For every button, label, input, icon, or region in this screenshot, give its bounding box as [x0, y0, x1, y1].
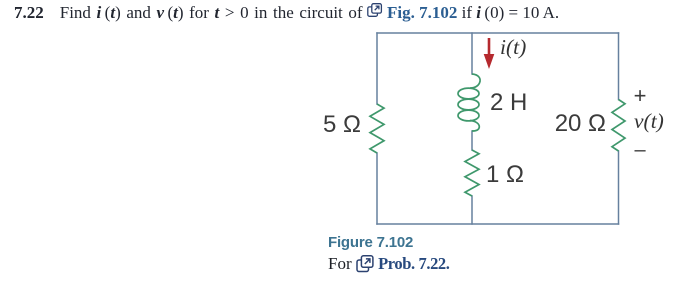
wire top [377, 32, 619, 34]
svg-text:20 Ω: 20 Ω [555, 110, 606, 137]
wire right edge upper [618, 33, 620, 100]
wire bottom [377, 223, 619, 225]
wire middle branch mid [471, 131, 473, 150]
svg-text:i(t): i(t) [500, 35, 526, 59]
external-link icon (header) [367, 3, 383, 17]
figure caption [328, 234, 413, 251]
svg-text:v(t): v(t) [634, 109, 664, 133]
wire left edge upper [376, 33, 378, 104]
wire middle branch upper [471, 33, 473, 74]
resistor 5ohm zigzag [370, 104, 384, 153]
prob reference line [328, 254, 450, 274]
wire left edge lower [376, 153, 378, 224]
current arrow i(t) [484, 38, 495, 69]
wire middle branch lower [471, 196, 473, 224]
svg-text:5 Ω: 5 Ω [323, 111, 361, 138]
external-link icon (caption) [356, 255, 374, 273]
problem statement text [14, 3, 559, 23]
wire right edge lower [618, 151, 620, 224]
svg-text:2 H: 2 H [490, 89, 527, 116]
svg-text:–: – [634, 139, 646, 161]
inductor L 2H coil [458, 74, 480, 131]
resistor 20ohm zigzag [612, 100, 625, 152]
svg-text:+: + [634, 83, 647, 108]
svg-text:1 Ω: 1 Ω [486, 161, 524, 188]
resistor 1ohm zigzag [465, 150, 479, 196]
